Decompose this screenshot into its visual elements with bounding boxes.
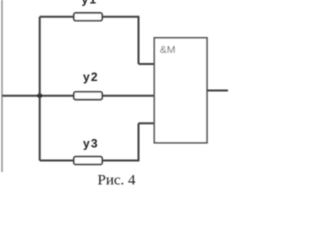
wire: row3 to box У3 xyxy=(40,160,75,162)
left page border line xyxy=(1,0,3,172)
wire: block output xyxy=(207,90,228,92)
wire: main input from left edge xyxy=(2,95,75,97)
wire: У1 into block xyxy=(139,63,155,65)
svg-text:&M: &M xyxy=(160,44,176,56)
amplifier У1 box xyxy=(74,13,102,21)
svg-text:у1: у1 xyxy=(82,0,98,6)
amplifier У3 box xyxy=(74,157,102,165)
amplifier У2 box xyxy=(74,92,102,100)
logic block U1 (&M) xyxy=(154,38,207,143)
wire: У1 riser down xyxy=(138,17,140,64)
wire: У3 riser up xyxy=(138,123,140,160)
wire: row1 to box У1 xyxy=(40,16,75,18)
wire: vertical bus xyxy=(39,17,41,161)
wire: У3 into block xyxy=(139,122,155,124)
wire: У2 output into block xyxy=(102,95,154,97)
wire: У1 output xyxy=(102,16,139,18)
svg-text:Рис. 4: Рис. 4 xyxy=(98,173,137,189)
wire: У3 output xyxy=(102,160,139,162)
node: input junction xyxy=(37,93,42,98)
svg-text:у2: у2 xyxy=(83,70,99,84)
svg-text:у3: у3 xyxy=(83,137,99,151)
